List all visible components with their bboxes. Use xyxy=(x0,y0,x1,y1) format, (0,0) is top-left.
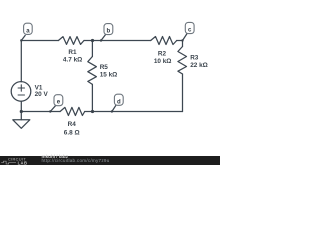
svg-text:LAB: LAB xyxy=(18,160,28,165)
resistor R5 zigzag xyxy=(88,57,97,85)
wire R2 to node c corner xyxy=(177,40,183,42)
V1 plus sign xyxy=(18,85,24,91)
flag pin dot node e xyxy=(49,110,51,112)
wire V1 bottom to bottom rail xyxy=(20,101,22,111)
wire R5 bottom lead xyxy=(91,84,93,111)
svg-text:R3: R3 xyxy=(190,55,199,62)
node a flag box xyxy=(24,23,33,34)
wire bottom rail right (to corner under R3) xyxy=(93,111,183,113)
resistor R2 zigzag xyxy=(151,37,177,45)
wire bottom rail left (junction to node e flag) xyxy=(21,111,50,113)
resistor R3 zigzag xyxy=(178,47,187,75)
junction dot node b xyxy=(91,39,94,42)
wire left vertical (node a down to V1) xyxy=(20,41,22,82)
svg-text:15 kΩ: 15 kΩ xyxy=(100,72,118,79)
flag pin dot node a xyxy=(20,39,22,41)
flag pin dot node c xyxy=(181,39,183,41)
wire node e flag to R4 xyxy=(50,111,60,113)
voltage source V1 circle xyxy=(11,82,31,102)
node d flag box xyxy=(114,94,123,105)
node c flag leader line xyxy=(183,34,188,41)
node a flag leader line xyxy=(21,35,25,40)
wire R3 bottom lead xyxy=(182,74,184,112)
node b flag leader line xyxy=(101,35,106,41)
svg-text:4.7 kΩ: 4.7 kΩ xyxy=(63,56,82,63)
CircuitLab logo xyxy=(0,156,40,166)
junction dot bottom middle xyxy=(91,110,94,113)
node c flag box xyxy=(185,22,194,33)
flag pin dot node b xyxy=(100,39,102,41)
svg-text:R4: R4 xyxy=(68,121,77,128)
svg-text:R5: R5 xyxy=(100,64,109,71)
V1 minus sign xyxy=(18,94,24,96)
node e flag box xyxy=(54,95,63,106)
resistor R4 zigzag xyxy=(60,107,85,115)
svg-text:6.8 Ω: 6.8 Ω xyxy=(64,129,80,136)
node b flag box xyxy=(104,24,113,35)
junction dot V1 bottom xyxy=(20,110,23,113)
flag pin dot node d xyxy=(111,110,113,112)
svg-text:22 kΩ: 22 kΩ xyxy=(190,62,208,69)
wire node b to R2 xyxy=(92,40,150,42)
watermark text line 2: schematic URL xyxy=(42,159,110,164)
node d flag leader line xyxy=(112,105,116,111)
svg-text:10 kΩ: 10 kΩ xyxy=(154,58,172,65)
svg-text:R2: R2 xyxy=(158,50,167,57)
svg-text:b: b xyxy=(107,29,111,35)
wire ground stub xyxy=(20,112,22,120)
wire right vertical top (node c corner to R3) xyxy=(182,41,184,47)
resistor R1 zigzag xyxy=(58,37,84,45)
wire R4 to middle junction xyxy=(85,111,93,113)
svg-text:20 V: 20 V xyxy=(35,91,49,98)
svg-text:R1: R1 xyxy=(68,49,77,56)
svg-text:d: d xyxy=(117,99,121,105)
watermark bar xyxy=(0,156,220,166)
wire middle vertical top (node b junction to R5) xyxy=(91,41,93,57)
node e flag leader line xyxy=(50,106,55,112)
wire top-left horizontal (node a to R1) xyxy=(21,40,58,42)
ground symbol triangle xyxy=(13,120,30,129)
wire R1 to node b junction xyxy=(84,40,93,42)
watermark text line 1: mkuhl / lab2 xyxy=(42,155,69,160)
